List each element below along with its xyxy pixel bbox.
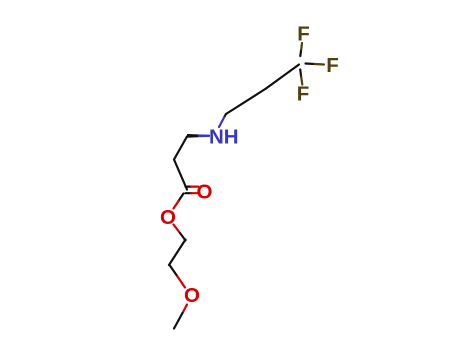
C=O double bond lower line	[186, 192, 199, 194]
bond O-CH3	[174, 305, 187, 329]
bond C-F2 right	[306, 64, 325, 65]
bond CH2-CH2	[169, 240, 186, 266]
bond C-F3 bottom	[300, 70, 302, 85]
svg-text:NH: NH	[209, 126, 239, 149]
bond chain CF3 to vertex	[266, 65, 299, 89]
bond C-F1 top	[300, 43, 302, 56]
svg-text:O: O	[197, 181, 213, 204]
C=O double bond upper line	[186, 186, 199, 188]
bond N-CH2 horizontal wedge	[187, 134, 210, 138]
svg-text:F: F	[326, 54, 339, 77]
bond CH2 down-left	[174, 137, 187, 160]
bond C to N steep	[219, 114, 226, 127]
bond C-O ester	[174, 194, 184, 209]
bond to carbonyl C	[174, 160, 187, 190]
bond vertex to C next to N	[226, 89, 266, 115]
bond O ester-CH2	[174, 225, 186, 241]
svg-text:F: F	[297, 83, 310, 106]
bond CH2-O methoxy	[170, 265, 186, 288]
svg-text:O: O	[184, 284, 200, 307]
svg-text:O: O	[160, 206, 176, 229]
svg-text:F: F	[297, 23, 310, 46]
